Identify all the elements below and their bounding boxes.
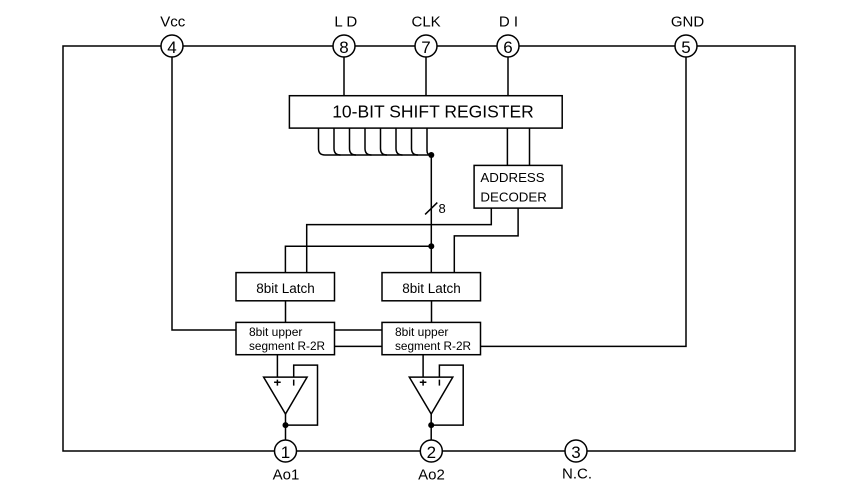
svg-text:CLK: CLK [412,13,441,30]
svg-text:8bit Latch: 8bit Latch [256,281,315,296]
svg-text:ADDRESS: ADDRESS [480,170,544,185]
svg-text:Ao2: Ao2 [418,466,445,483]
svg-text:Ao1: Ao1 [273,466,300,483]
svg-text:8: 8 [439,201,446,216]
svg-text:6: 6 [503,38,512,57]
svg-text:8: 8 [339,38,348,57]
svg-text:L D: L D [334,13,357,30]
svg-text:8bit upper: 8bit upper [395,325,448,339]
svg-text:5: 5 [681,38,690,57]
svg-text:7: 7 [421,38,430,57]
svg-text:segment R-2R: segment R-2R [395,339,471,353]
svg-text:DECODER: DECODER [480,189,547,204]
svg-text:8bit Latch: 8bit Latch [402,281,461,296]
svg-text:N.C.: N.C. [562,466,592,483]
svg-text:1: 1 [281,443,290,462]
svg-text:Vcc: Vcc [160,13,186,30]
svg-text:GND: GND [671,13,705,30]
svg-text:4: 4 [167,38,176,57]
svg-text:2: 2 [427,443,436,462]
svg-text:10-BIT SHIFT REGISTER: 10-BIT SHIFT REGISTER [332,102,534,122]
svg-text:D I: D I [499,13,518,30]
svg-text:8bit upper: 8bit upper [249,325,302,339]
svg-text:3: 3 [571,443,580,462]
svg-text:segment R-2R: segment R-2R [249,339,325,353]
